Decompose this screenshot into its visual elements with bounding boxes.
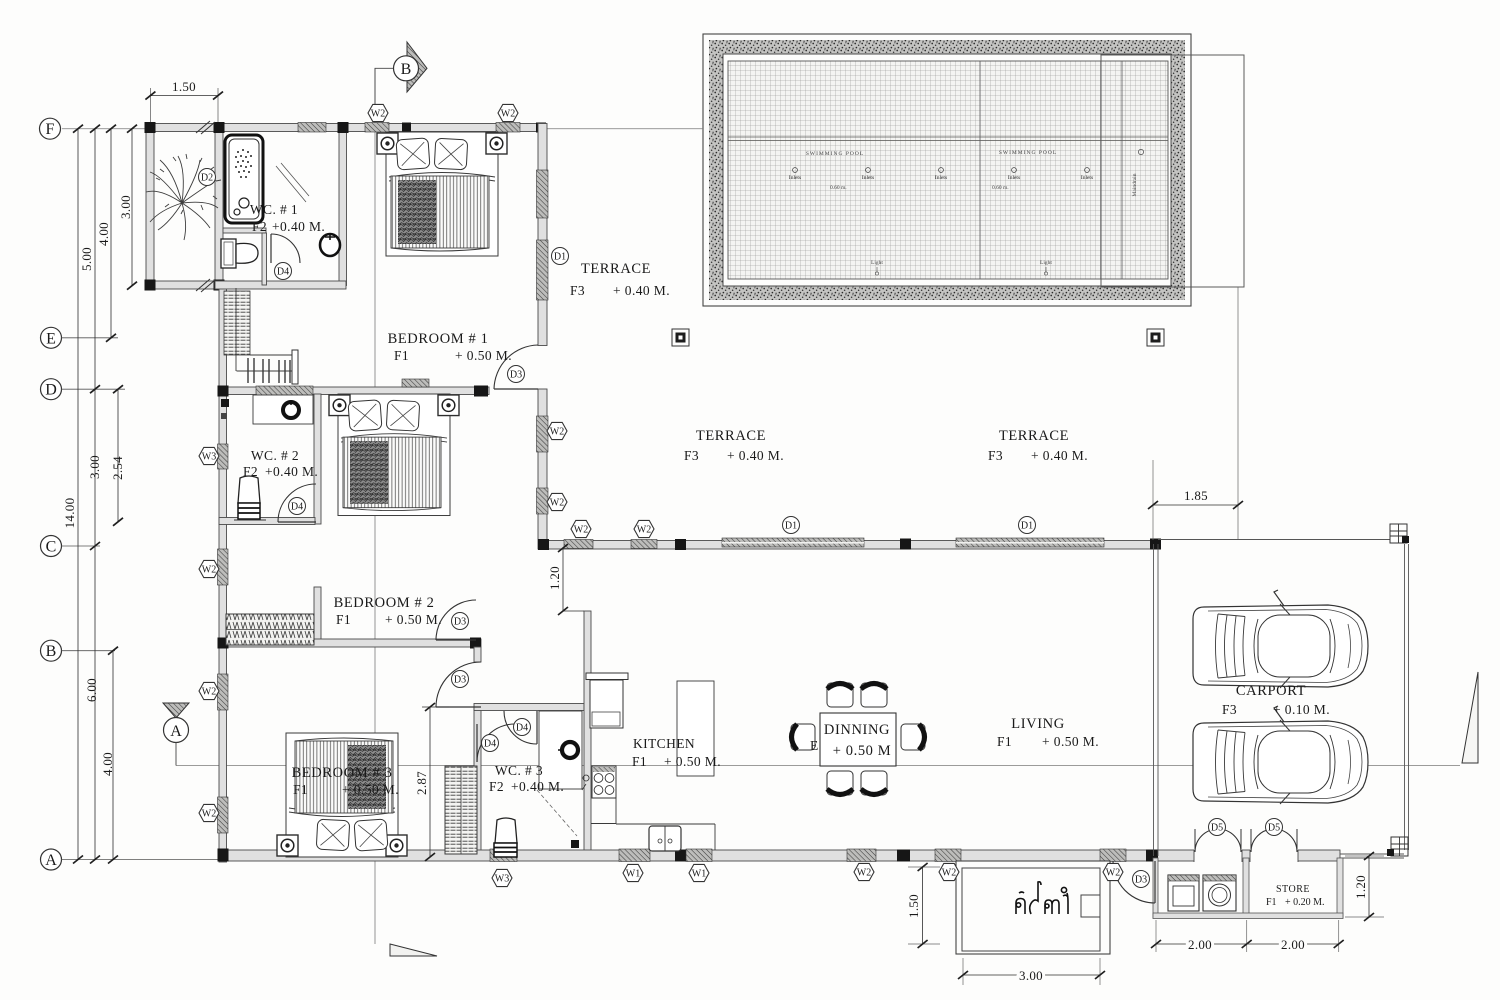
carport east wall bbox=[1405, 544, 1409, 850]
label hexagon W2 wall F left bbox=[368, 104, 388, 121]
svg-text:W3: W3 bbox=[202, 452, 216, 463]
carport north edge bbox=[1158, 539, 1390, 541]
swimming pool tile grid bbox=[728, 61, 1168, 279]
label hexagon W1 wall A 1 bbox=[623, 864, 643, 881]
label circle D4 WC2 bbox=[289, 498, 306, 515]
label circle D5 left bbox=[1209, 819, 1226, 836]
svg-text:D4: D4 bbox=[484, 739, 496, 750]
grid line F leader bbox=[62, 128, 703, 130]
svg-text:+ 0.40 M.: + 0.40 M. bbox=[727, 448, 784, 463]
dining chair top-left bbox=[827, 683, 853, 707]
svg-text:W2: W2 bbox=[942, 868, 956, 879]
WC3 north wall bbox=[474, 704, 584, 711]
svg-text:D1: D1 bbox=[1021, 521, 1033, 532]
label hexagon W2 wall F right bbox=[498, 104, 518, 121]
svg-text:6.00: 6.00 bbox=[84, 678, 99, 702]
WC1 south wall bbox=[215, 281, 346, 289]
svg-text:WC. # 3: WC. # 3 bbox=[495, 763, 543, 778]
water tank pad bbox=[956, 861, 1110, 954]
svg-text:W1: W1 bbox=[692, 869, 706, 880]
dim 1.20 kitchen passage bbox=[563, 548, 584, 611]
svg-text:W2: W2 bbox=[1106, 868, 1120, 879]
label circle D4 WC3 bbox=[514, 719, 531, 736]
svg-text:1.20: 1.20 bbox=[1353, 875, 1368, 899]
small mark kitchen wall bbox=[582, 775, 589, 790]
svg-text:Inlets: Inlets bbox=[862, 175, 874, 181]
WC2 east wall bbox=[314, 394, 321, 524]
post terrace wall east end bbox=[1150, 539, 1161, 550]
svg-text:1.50: 1.50 bbox=[906, 894, 921, 918]
pool inlet symbols bbox=[793, 168, 1090, 173]
svg-text:STORE: STORE bbox=[1276, 884, 1310, 895]
partition WC1 bbox=[223, 228, 266, 233]
svg-text:3.00: 3.00 bbox=[1019, 968, 1043, 983]
svg-text:W2: W2 bbox=[202, 687, 216, 698]
section marker A left bbox=[163, 703, 189, 718]
section line A-A horizontal bbox=[176, 765, 1460, 767]
vanity counter WC3 bbox=[539, 711, 582, 789]
wall B bedroom2/hall bbox=[219, 639, 481, 647]
svg-text:W2: W2 bbox=[202, 809, 216, 820]
dim 1.85 carport bbox=[1153, 504, 1238, 506]
svg-text:Light: Light bbox=[1040, 260, 1052, 266]
svg-text:D3: D3 bbox=[454, 617, 466, 628]
svg-text:B: B bbox=[46, 643, 57, 660]
stair lower run balusters bbox=[248, 358, 290, 383]
swimming pool outer frame bbox=[703, 34, 1191, 306]
wall A east extension bbox=[1340, 854, 1404, 858]
svg-text:2.00: 2.00 bbox=[1281, 937, 1305, 952]
svg-text:Light: Light bbox=[871, 260, 883, 266]
window W2 wall A 1 bbox=[847, 849, 876, 862]
svg-text:F1: F1 bbox=[632, 754, 647, 769]
window W1 wall A 1 bbox=[619, 849, 650, 862]
label circle D1 terrace 1 bbox=[783, 517, 800, 534]
label hexagon W2 wall A 3 bbox=[1103, 863, 1123, 880]
label hexagon W2 east wall 2 bbox=[547, 493, 567, 510]
hall east wall lower bbox=[474, 707, 481, 856]
threshold bedroom1 door bbox=[402, 379, 429, 387]
window W2 wall A 2 bbox=[935, 849, 961, 862]
svg-text:3.00: 3.00 bbox=[87, 455, 102, 479]
svg-text:WC. # 2: WC. # 2 bbox=[251, 448, 299, 463]
kitchen stove bbox=[592, 766, 616, 798]
dryer unit bbox=[1168, 875, 1199, 911]
palm tree in planter bbox=[146, 154, 221, 240]
dim 2.00 utility left bbox=[1156, 943, 1247, 945]
planter corner posts bbox=[145, 122, 156, 133]
wall F north bbox=[146, 124, 545, 132]
label circle D2 planter bbox=[199, 169, 216, 186]
post terrace wall mid1 bbox=[675, 539, 686, 550]
label circle D1 east wall bbox=[552, 248, 569, 265]
corner post terrace wall bbox=[538, 539, 549, 550]
label circle D3 bedroom3 bbox=[452, 671, 469, 688]
label hexagon W2 wall A 1 bbox=[854, 863, 874, 880]
sliding door D1 terrace wall 1 bbox=[722, 538, 864, 547]
planter east wall bbox=[215, 124, 223, 289]
dining chair bottom-right bbox=[861, 771, 887, 795]
window W2 east wall 2 bbox=[537, 488, 549, 514]
label hexagon W2 terrace wall 1 bbox=[571, 520, 591, 537]
svg-text:KITCHEN: KITCHEN bbox=[633, 736, 695, 751]
water tank thai label bbox=[1016, 882, 1068, 914]
svg-text:D1: D1 bbox=[785, 521, 797, 532]
terrace column left bbox=[672, 329, 689, 346]
wall A south bbox=[219, 850, 1340, 861]
door D3 utility arc bbox=[1113, 861, 1155, 903]
post on wall F at WC1 bbox=[338, 122, 349, 133]
svg-text:W2: W2 bbox=[501, 109, 515, 120]
svg-text:LIVING: LIVING bbox=[1011, 716, 1065, 732]
label hexagon W2 west wall 3 bbox=[199, 804, 219, 821]
dim chain 14.00 bbox=[77, 129, 79, 860]
swimming pool lane lines bbox=[728, 137, 1168, 141]
label hexagon W3 west wall bbox=[199, 447, 219, 464]
section line B bottom flag bbox=[390, 944, 437, 956]
planter west wall bbox=[146, 124, 154, 289]
washer unit bbox=[1203, 875, 1236, 911]
window in wall F above WC1 bbox=[298, 123, 326, 133]
svg-text:+0.40 M.: +0.40 M. bbox=[265, 464, 318, 479]
bathtub WC1 bbox=[225, 135, 263, 223]
svg-text:+ 0.50 M.: + 0.50 M. bbox=[455, 348, 512, 363]
svg-text:5.00: 5.00 bbox=[79, 247, 94, 271]
window W2 east wall 1 bbox=[537, 416, 549, 452]
svg-text:+0.40 M.: +0.40 M. bbox=[272, 219, 325, 234]
terrace south wall bbox=[540, 541, 1158, 550]
label hexagon W2 west wall 1 bbox=[199, 560, 219, 577]
label circle D5 right bbox=[1266, 819, 1283, 836]
svg-text:Inlets: Inlets bbox=[789, 175, 801, 181]
toilet WC2 bbox=[238, 476, 260, 503]
svg-text:D3: D3 bbox=[454, 675, 466, 686]
window W2 west wall 3 bbox=[218, 797, 229, 833]
dim 2.87 hall bbox=[422, 707, 449, 857]
west exterior wall bbox=[219, 281, 227, 862]
shower screen WC1 bbox=[276, 163, 309, 202]
svg-text:W2: W2 bbox=[550, 498, 564, 509]
svg-text:D3: D3 bbox=[1135, 875, 1147, 886]
carport NE column bbox=[1390, 524, 1407, 543]
svg-text:+ 0.50 M.: + 0.50 M. bbox=[385, 612, 442, 627]
door opening D5 gaps in wall A bbox=[1194, 849, 1242, 863]
svg-text:4.00: 4.00 bbox=[100, 752, 115, 776]
svg-text:A: A bbox=[45, 852, 57, 869]
svg-text:Maindrain: Maindrain bbox=[1132, 173, 1138, 196]
dim chain 3.00 planter bbox=[131, 129, 133, 286]
svg-text:Inlets: Inlets bbox=[935, 175, 947, 181]
label hexagon W2 wall A 2 bbox=[939, 863, 959, 880]
svg-text:0.60 m.: 0.60 m. bbox=[992, 185, 1009, 191]
car 2 carport bbox=[1193, 706, 1368, 804]
svg-text:BEDROOM # 1: BEDROOM # 1 bbox=[388, 331, 489, 347]
window W2 west wall 2 bbox=[218, 674, 229, 710]
svg-text:D3: D3 bbox=[510, 370, 522, 381]
svg-text:F3: F3 bbox=[570, 283, 585, 298]
dim chain 5.00 / 3.00 / 6.00 bbox=[94, 129, 96, 860]
toilet WC3 bbox=[495, 818, 517, 843]
svg-text:F3: F3 bbox=[988, 448, 1003, 463]
bed bedroom1 bbox=[377, 132, 507, 256]
dim 1.50 top bbox=[150, 95, 218, 97]
svg-text:W2: W2 bbox=[857, 868, 871, 879]
svg-text:W2: W2 bbox=[574, 525, 588, 536]
svg-text:0.60 m.: 0.60 m. bbox=[830, 185, 847, 191]
grid bubble F bbox=[40, 118, 61, 139]
svg-text:+ 0.40 M.: + 0.40 M. bbox=[1031, 448, 1088, 463]
sliding door D1 terrace wall 2 bbox=[956, 538, 1104, 547]
svg-text:SWIMMING POOL: SWIMMING POOL bbox=[999, 150, 1057, 156]
svg-text:W3: W3 bbox=[495, 874, 509, 885]
door D3 bedroom3 arc bbox=[436, 662, 481, 707]
label circle D3 bedroom2 bbox=[452, 613, 469, 630]
window W2 terrace wall 2 bbox=[631, 540, 657, 549]
label circle D4 WC1 bbox=[275, 263, 292, 280]
window W1 wall A 2 bbox=[686, 849, 712, 862]
kitchen fridge cabinet bbox=[590, 680, 623, 728]
svg-text:W2: W2 bbox=[637, 525, 651, 536]
svg-text:F2: F2 bbox=[252, 219, 267, 234]
WC2 south wall bbox=[219, 518, 315, 525]
svg-text:D: D bbox=[45, 382, 57, 399]
svg-text:E: E bbox=[46, 330, 56, 347]
door D4 WC3 arc bbox=[504, 711, 537, 744]
label circle D3 utility bbox=[1133, 871, 1150, 888]
svg-text:1.85: 1.85 bbox=[1184, 488, 1208, 503]
svg-text:WC. # 1: WC. # 1 bbox=[250, 202, 298, 217]
sink counter WC2 bbox=[253, 395, 313, 424]
window hatch wall D over WC2 counter bbox=[256, 386, 313, 396]
svg-text:D5: D5 bbox=[1211, 823, 1223, 834]
svg-text:BEDROOM # 2: BEDROOM # 2 bbox=[334, 595, 435, 611]
car 1 carport bbox=[1193, 590, 1368, 688]
dim 3.00 water tank bbox=[963, 974, 1100, 976]
door D4 WC2 arc bbox=[278, 484, 316, 522]
svg-text:4.00: 4.00 bbox=[96, 222, 111, 246]
svg-text:F1: F1 bbox=[336, 612, 351, 627]
svg-text:2.87: 2.87 bbox=[414, 771, 429, 795]
svg-text:F3: F3 bbox=[684, 448, 699, 463]
dining chair right bbox=[901, 724, 925, 750]
planter south wall bbox=[146, 281, 223, 289]
svg-text:BEDROOM # 3: BEDROOM # 3 bbox=[292, 765, 393, 781]
dining chair top-right bbox=[861, 683, 887, 707]
stair treads west entry bbox=[224, 291, 250, 355]
carport SE column bbox=[1391, 837, 1408, 856]
svg-text:TERRACE: TERRACE bbox=[696, 428, 766, 444]
WC1 east wall bbox=[339, 124, 347, 286]
svg-text:+ 0.50 M.: + 0.50 M. bbox=[664, 754, 721, 769]
label hexagon W2 east wall 1 bbox=[547, 422, 567, 439]
grid bubble A bbox=[41, 849, 62, 870]
east wall of bedroom wing bbox=[538, 124, 547, 346]
kitchen sink cabinet bbox=[649, 826, 681, 851]
svg-text:F3: F3 bbox=[1222, 702, 1237, 717]
label hexagon W2 west wall 2 bbox=[199, 682, 219, 699]
grid bubble E bbox=[41, 327, 62, 348]
label hexagon W2 terrace wall 2 bbox=[634, 520, 654, 537]
wardrobe bedroom2 bbox=[226, 614, 314, 645]
label circle D1 terrace 2 bbox=[1019, 517, 1036, 534]
svg-text:B: B bbox=[401, 61, 412, 78]
toilet WC1 bbox=[221, 239, 236, 268]
svg-text:D4: D4 bbox=[291, 502, 303, 513]
terrace column right bbox=[1147, 329, 1164, 346]
grid bubble D bbox=[41, 379, 62, 400]
window W2 terrace wall 1 bbox=[564, 540, 593, 549]
svg-text:14.00: 14.00 bbox=[62, 498, 77, 529]
hall east wall stub bbox=[474, 647, 481, 662]
label hexagon W1 wall A 2 bbox=[689, 864, 709, 881]
window W2 in wall F left bbox=[365, 123, 389, 133]
svg-text:CARPORT: CARPORT bbox=[1236, 683, 1306, 699]
grid bubble C bbox=[41, 536, 62, 557]
svg-text:F: F bbox=[46, 121, 55, 138]
svg-text:+0.40 M.: +0.40 M. bbox=[511, 779, 564, 794]
dining table bbox=[820, 713, 896, 766]
svg-text:TERRACE: TERRACE bbox=[581, 261, 651, 277]
svg-text:W1: W1 bbox=[626, 869, 640, 880]
grid bubble B bbox=[41, 640, 62, 661]
door D1 band east wall bbox=[537, 240, 549, 300]
svg-text:3.00: 3.00 bbox=[118, 195, 133, 219]
post terrace wall mid2 bbox=[900, 539, 911, 550]
wall D bedroom1/bedroom2 bbox=[219, 387, 489, 395]
dining chair bottom-left bbox=[827, 771, 853, 795]
svg-text:F1: F1 bbox=[293, 782, 308, 797]
swimming pool inner frame bbox=[723, 54, 1171, 286]
svg-text:TERRACE: TERRACE bbox=[999, 428, 1069, 444]
section marker B top bbox=[407, 42, 427, 92]
svg-text:D2: D2 bbox=[201, 173, 213, 184]
svg-text:+ 0.50 M.: + 0.50 M. bbox=[342, 782, 399, 797]
window W3 wall A bbox=[490, 849, 517, 862]
closet north wall stub bedroom2 bbox=[314, 587, 321, 645]
svg-text:F1: F1 bbox=[997, 734, 1012, 749]
door D3 bedroom2 arc bbox=[436, 600, 476, 640]
svg-text:E: E bbox=[810, 738, 819, 753]
svg-text:+ 0.20 M.: + 0.20 M. bbox=[1285, 897, 1325, 908]
svg-text:F2: F2 bbox=[243, 464, 258, 479]
kitchen west wall bbox=[584, 611, 591, 856]
svg-text:SWIMMING POOL: SWIMMING POOL bbox=[806, 151, 864, 157]
svg-text:W2: W2 bbox=[202, 565, 216, 576]
label circle D3 bedroom1 bbox=[508, 366, 525, 383]
svg-text:F1: F1 bbox=[1266, 897, 1277, 908]
window in east wall top bbox=[537, 170, 549, 218]
svg-text:D5: D5 bbox=[1268, 823, 1280, 834]
dim 1.20 store bbox=[1368, 856, 1370, 917]
section marker A right arrow bbox=[1462, 672, 1478, 763]
window W2 wall A 3 bbox=[1100, 849, 1126, 862]
dim 2.00 utility right bbox=[1247, 943, 1339, 945]
kitchen fridge top bar bbox=[586, 673, 628, 680]
window W2 west wall 1 bbox=[218, 549, 229, 585]
svg-text:DINNING: DINNING bbox=[824, 722, 890, 738]
terrace boundary rectangle overlapping pool bbox=[1101, 55, 1244, 287]
svg-text:2.54: 2.54 bbox=[110, 456, 125, 480]
dim 1.50 water tank bbox=[922, 867, 924, 944]
svg-text:+ 0.50 M: + 0.50 M bbox=[833, 743, 892, 759]
svg-text:D4: D4 bbox=[277, 267, 289, 278]
window W2 in wall F right bbox=[496, 123, 520, 133]
svg-text:A: A bbox=[170, 723, 182, 740]
kitchen counter L bbox=[616, 766, 715, 850]
linen shelf hall bbox=[445, 766, 477, 854]
shower corner WC3 bbox=[537, 790, 577, 836]
window W3 west wall bbox=[218, 444, 229, 469]
svg-text:1.20: 1.20 bbox=[547, 566, 562, 590]
label hexagon W3 wall A bbox=[492, 869, 512, 886]
svg-text:2.00: 2.00 bbox=[1188, 937, 1212, 952]
carport west wall bbox=[1154, 544, 1159, 856]
svg-text:C: C bbox=[46, 539, 57, 556]
posts wall A bbox=[218, 849, 229, 862]
posts wall D bbox=[218, 386, 229, 397]
wall break marks planter bbox=[196, 121, 215, 292]
dim chain 4.00 F-E / 2.54 / 4.00 B-A bbox=[110, 129, 112, 338]
svg-text:Inlets: Inlets bbox=[1081, 175, 1093, 181]
door D5 double arcs right bbox=[1251, 829, 1297, 852]
swimming pool stipple border band bbox=[709, 40, 1185, 300]
svg-text:Inlets: Inlets bbox=[1008, 175, 1020, 181]
label circle D4 hall bbox=[482, 735, 499, 752]
svg-text:D1: D1 bbox=[554, 252, 566, 263]
door D4 WC1 arc bbox=[271, 234, 300, 263]
door D5 double arcs left bbox=[1195, 829, 1241, 852]
svg-text:+ 0.10 M.: + 0.10 M. bbox=[1273, 702, 1330, 717]
svg-text:F2: F2 bbox=[489, 779, 504, 794]
svg-text:W2: W2 bbox=[550, 427, 564, 438]
section line B-B vertical bbox=[374, 68, 376, 944]
laundry room walls bbox=[1153, 858, 1158, 918]
svg-text:+ 0.50 M.: + 0.50 M. bbox=[1042, 734, 1099, 749]
sink WC1 bbox=[320, 234, 340, 256]
kitchen island bbox=[677, 681, 714, 776]
bed bedroom3 bbox=[277, 733, 407, 857]
svg-text:1.50: 1.50 bbox=[172, 79, 196, 94]
svg-text:+ 0.40 M.: + 0.40 M. bbox=[613, 283, 670, 298]
bed bedroom2 bbox=[329, 394, 459, 516]
door D4 hall arc bbox=[477, 724, 515, 762]
svg-text:D4: D4 bbox=[516, 723, 528, 734]
door D3 bedroom1 arc bbox=[494, 345, 538, 389]
svg-text:W2: W2 bbox=[371, 109, 385, 120]
svg-text:F1: F1 bbox=[394, 348, 409, 363]
dining chair left bbox=[791, 724, 815, 750]
